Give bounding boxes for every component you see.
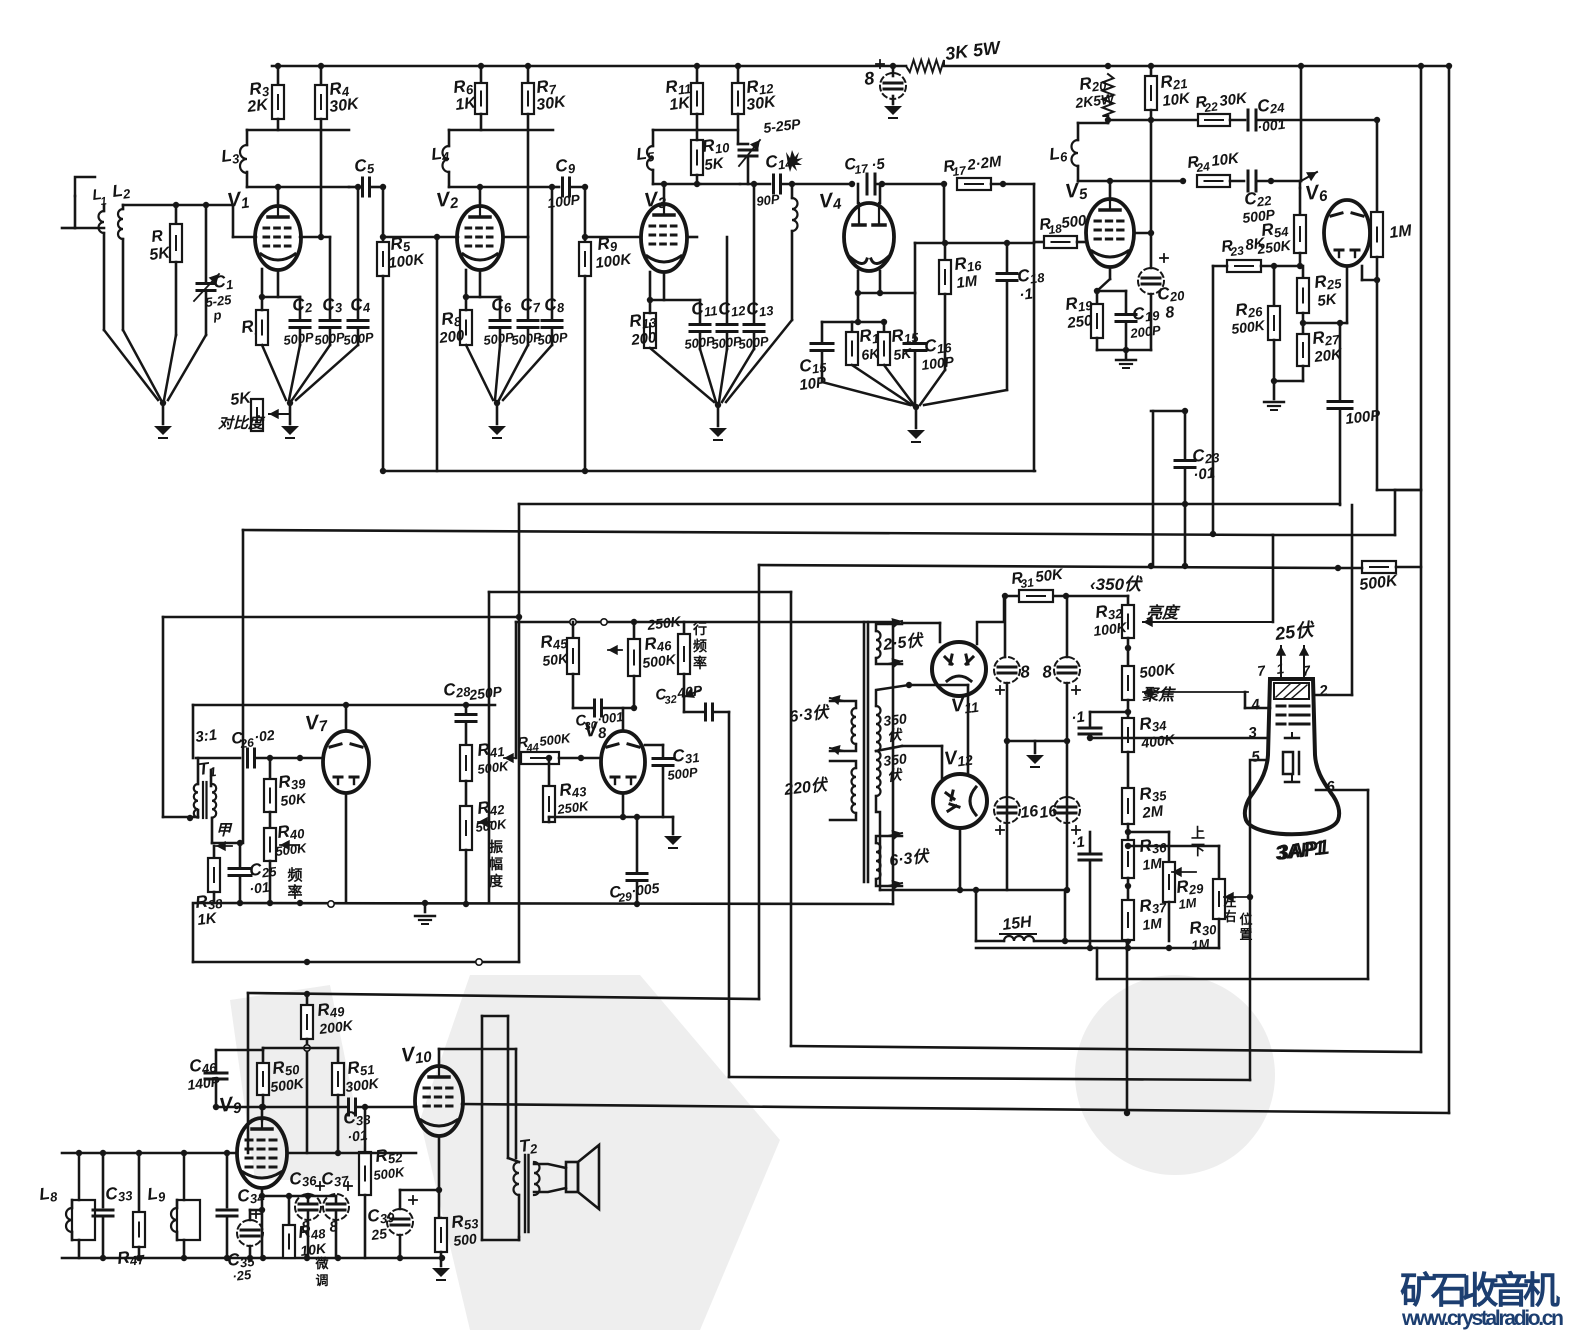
wire V11 leads — [939, 623, 942, 642]
wire V7 cathode drop — [345, 793, 348, 903]
capacitor C11 500P — [699, 300, 702, 322]
svg-text:C6: C6 — [490, 294, 513, 317]
choke 15H — [975, 890, 978, 941]
resistor R14 6K — [851, 322, 854, 332]
capacitor C24 .001 — [1247, 110, 1250, 130]
capacitor C17 .5 — [849, 181, 855, 187]
svg-text:15H: 15H — [1001, 913, 1033, 934]
svg-text:250K: 250K — [556, 798, 591, 817]
capacitor C33 — [102, 1153, 105, 1207]
wire V5 cathode rail — [1097, 349, 1151, 352]
svg-text:C8: C8 — [543, 294, 566, 317]
resistor R46 500K — [633, 622, 636, 639]
svg-text:2·5伏: 2·5伏 — [881, 631, 925, 654]
svg-text:频: 频 — [693, 638, 707, 654]
resistor R53 500 — [435, 1218, 447, 1252]
wire right edge vertical — [1448, 66, 1451, 1113]
winding 220V — [852, 768, 857, 813]
svg-text:90P: 90P — [756, 191, 781, 209]
svg-text:24: 24 — [1195, 159, 1211, 175]
wire V6 plate jog to 500K riser — [1377, 489, 1421, 492]
svg-text:17: 17 — [952, 163, 968, 179]
capacitor C3 500P — [329, 237, 332, 318]
ground (V1 cathode) — [281, 426, 299, 435]
svg-text:4: 4 — [1249, 696, 1261, 714]
svg-text:8: 8 — [1164, 304, 1175, 322]
ground (top filter cap) — [884, 106, 902, 115]
wire top B+ bus — [272, 65, 906, 68]
svg-text:10P: 10P — [798, 374, 828, 394]
svg-text:5: 5 — [1250, 748, 1261, 766]
svg-text:V7: V7 — [304, 710, 329, 737]
ground (bottom rail) — [440, 1258, 443, 1266]
resistor R6 1K — [480, 66, 483, 83]
svg-text:率: 率 — [287, 883, 302, 901]
ground funnel (V1 input) — [104, 330, 158, 400]
spark mark — [786, 150, 803, 172]
wire 350V leads — [876, 685, 909, 706]
ground (R26/R27) — [1273, 381, 1276, 399]
capacitor C8 500P — [551, 187, 554, 318]
wire V2 cathode — [479, 270, 482, 297]
svg-text:频: 频 — [287, 866, 302, 884]
capacitor C26 .02 — [246, 749, 249, 767]
ground (V7 rail) — [424, 903, 427, 912]
ecap C36 8 — [307, 1196, 310, 1203]
svg-text:3K 5W: 3K 5W — [944, 37, 1003, 64]
resistor R12 30K — [737, 66, 740, 83]
svg-text:C3: C3 — [321, 294, 344, 317]
capacitor 100P (V6 cathode) — [1339, 323, 1342, 399]
speaker — [566, 1162, 578, 1192]
resistor R41 500K — [460, 745, 472, 781]
svg-text:50K: 50K — [279, 790, 307, 809]
svg-text:500P: 500P — [483, 329, 515, 348]
svg-text:www.crystalradio.cn: www.crystalradio.cn — [1401, 1307, 1564, 1330]
wire y1077 deflection from C32 — [729, 1077, 1250, 1080]
svg-text:·1: ·1 — [1018, 285, 1033, 303]
svg-text:V2: V2 — [435, 187, 460, 214]
svg-text:500K: 500K — [275, 840, 309, 859]
wire CRT pin2 — [1313, 694, 1352, 697]
wire bus drop to V6 grid — [1298, 63, 1304, 69]
wire PS bottom rails — [976, 947, 1219, 950]
filter cap 8 right — [1066, 596, 1069, 657]
capacitor 8 (top filter, electrolytic) — [890, 63, 896, 69]
wire R31 row y596 — [1004, 595, 1128, 598]
coil L5 tank — [653, 129, 738, 132]
wire V6 cathode to divider — [1346, 266, 1349, 323]
svg-text:1K: 1K — [668, 94, 692, 114]
ground (V8) — [672, 817, 675, 834]
svg-text:250: 250 — [1065, 312, 1094, 332]
capacitor C6 500P — [499, 297, 502, 318]
resistor R8 200 — [465, 270, 468, 297]
wire CRT pin6 — [1316, 789, 1368, 792]
CRT deflection plates — [1285, 737, 1299, 740]
wire riser x1421 — [1420, 66, 1423, 1052]
svg-text:L9: L9 — [146, 1183, 167, 1206]
wire V1 cathode — [277, 270, 280, 297]
svg-text:30K: 30K — [535, 93, 568, 114]
svg-text:500K: 500K — [539, 730, 573, 749]
resistor R20 2K 5W — [1105, 63, 1111, 69]
resistor R42 500K pot — [465, 781, 468, 806]
wire T1 secondary tap — [211, 818, 214, 843]
wire V1 screen row — [300, 236, 330, 239]
svg-text:行: 行 — [692, 621, 707, 637]
CRT gun hatch — [1274, 683, 1309, 699]
wire V10 cathode — [438, 1136, 441, 1218]
ground funnel (V3) — [650, 348, 714, 402]
svg-text:400K: 400K — [1139, 731, 1176, 751]
coil L3 plate tank — [247, 129, 349, 132]
wire V3 cathode — [663, 272, 666, 300]
svg-text:p: p — [212, 307, 223, 323]
svg-text:1M: 1M — [955, 272, 978, 291]
coil L2 — [122, 205, 125, 209]
svg-text:C33: C33 — [104, 1182, 134, 1206]
ground (V2) — [488, 426, 506, 435]
resistor R32 100K pot (brightness) — [1127, 596, 1130, 605]
capacitor C32 40P — [683, 674, 686, 712]
trimmer capacitor C1 5-25p — [205, 205, 208, 281]
svg-text:500P: 500P — [667, 764, 699, 783]
resistor R38 1K — [213, 846, 216, 858]
peaking coil under C14 node — [789, 181, 795, 187]
rectifier tube V12 — [933, 774, 987, 828]
wire CRT pin5 — [1250, 760, 1268, 1080]
svg-text:500K: 500K — [1230, 317, 1266, 337]
resistor R37 1M — [1122, 900, 1134, 940]
ground funnel (V2) — [466, 345, 493, 400]
electrolytic C20 8 — [1150, 233, 1153, 268]
svg-text:500K: 500K — [641, 651, 677, 671]
winding 350V lower — [876, 751, 881, 796]
wire LC y532 — [243, 530, 1273, 535]
svg-text:250P: 250P — [467, 683, 503, 703]
capacitor C12 500P — [726, 237, 729, 322]
wire middle box top y592 — [489, 591, 791, 594]
svg-text:R: R — [150, 228, 164, 246]
svg-text:300K: 300K — [344, 1075, 380, 1095]
svg-text:200P: 200P — [1129, 322, 1162, 341]
resistor R47 — [138, 1153, 141, 1212]
capacitor C5 — [361, 178, 364, 196]
svg-text:50K: 50K — [1034, 566, 1065, 586]
svg-text:5K: 5K — [892, 345, 913, 363]
svg-text:1M: 1M — [1178, 895, 1199, 912]
wire CRT pin4 — [1245, 707, 1270, 710]
filter cap 8 left — [1004, 596, 1007, 657]
svg-text:L3: L3 — [220, 145, 241, 168]
wire V2 plate row to C9 — [553, 186, 559, 189]
wire rail y993 — [248, 993, 759, 999]
wire V9 bottom connections — [261, 1188, 264, 1258]
resistor R34 400K — [1122, 718, 1134, 752]
wire PS mid rail y741 — [1007, 740, 1067, 743]
svg-text:V12: V12 — [943, 746, 974, 771]
wire T1 primary bottom — [187, 815, 193, 821]
svg-text:R16: R16 — [953, 252, 983, 276]
capacitor C19 200P — [1125, 291, 1128, 312]
svg-text:44: 44 — [525, 742, 540, 756]
wire V5 cathode — [1109, 267, 1112, 279]
ground (PS mid) — [1034, 741, 1037, 753]
svg-text:L2: L2 — [111, 180, 132, 203]
svg-text:500K: 500K — [477, 758, 511, 777]
resistor R10 5K (inside tank) — [691, 140, 703, 175]
transformer T3 core — [863, 622, 866, 882]
svg-text:甲: 甲 — [216, 822, 233, 839]
resistor R15 5K — [883, 322, 886, 332]
svg-text:1K: 1K — [196, 910, 218, 929]
svg-text:C18: C18 — [1016, 264, 1046, 288]
svg-text:上: 上 — [1191, 825, 1205, 841]
svg-text:8: 8 — [1019, 662, 1031, 682]
resistor R1 — [261, 269, 264, 297]
wire V5 grid node — [1134, 232, 1151, 235]
resistor R3 2K — [277, 66, 280, 85]
wire V7 plate rail y705 — [193, 704, 495, 707]
capacitor C18 .1 — [1006, 243, 1009, 272]
capacitor C34 — [217, 1209, 237, 1212]
resistor R52 500K — [359, 1152, 371, 1195]
resistor R48 10K — [262, 1195, 336, 1198]
resistor R22 30K — [1198, 114, 1230, 126]
wire V4 cathode rows — [857, 271, 860, 322]
CRT 3AP1 body — [1245, 679, 1339, 834]
svg-text:C7: C7 — [519, 294, 542, 317]
wire screen feed row y120 — [1107, 116, 1110, 123]
svg-text:10K: 10K — [1210, 150, 1241, 170]
svg-text:调: 调 — [315, 1273, 328, 1288]
svg-text:500: 500 — [452, 1230, 477, 1249]
svg-text:微: 微 — [314, 1256, 329, 1271]
svg-text:对比度: 对比度 — [218, 414, 266, 432]
svg-text:5K: 5K — [1316, 291, 1338, 310]
wire V7 grid row y758 — [196, 757, 240, 760]
svg-text:22: 22 — [1203, 99, 1219, 115]
filter cap 16 left — [994, 797, 1020, 823]
wire V1 grid row — [75, 227, 104, 230]
svg-text:矿石收音机: 矿石收音机 — [1400, 1270, 1560, 1311]
wire V12 leads — [941, 746, 944, 778]
svg-text:17: 17 — [854, 161, 870, 177]
svg-text:10K: 10K — [1161, 90, 1192, 110]
wire V9 grid row — [62, 1152, 237, 1155]
capacitor C22 500P — [1247, 171, 1250, 191]
svg-text:R25: R25 — [1313, 270, 1343, 294]
resistor R5 100K — [382, 187, 385, 242]
svg-text:220伏: 220伏 — [782, 776, 830, 799]
wire V2 grid — [383, 236, 458, 239]
wire x791 drop — [790, 592, 793, 1046]
svg-text:5-25P: 5-25P — [762, 115, 802, 136]
capacitor C23 .01 — [1151, 410, 1185, 413]
svg-text:伏: 伏 — [886, 766, 904, 784]
svg-text:C4: C4 — [349, 294, 372, 317]
resistor R30 1M pot — [1218, 846, 1221, 879]
resistor 500K (to CRT) — [1362, 561, 1396, 573]
capacitor C4 500P — [357, 187, 360, 318]
wire LA y471 — [383, 470, 1035, 473]
wire V9 output row — [287, 1152, 416, 1155]
coil L6 tank — [1078, 122, 1108, 125]
resistor 1M (V6 plate) — [1376, 120, 1379, 212]
wire V2 screen row — [503, 236, 528, 239]
wire R50/R51 top row — [263, 1047, 338, 1050]
capacitor C46 140P — [215, 1050, 218, 1073]
capacitor C29 .005 — [636, 817, 639, 871]
svg-text:100K: 100K — [594, 251, 633, 272]
svg-text:2K: 2K — [245, 96, 270, 116]
resistor R19 250 — [1096, 291, 1099, 304]
capacitor C38 .01 — [347, 1099, 350, 1115]
wire V5 plate row — [1107, 178, 1113, 184]
svg-text:1M: 1M — [1141, 855, 1163, 873]
wire R17 to R18 node — [1033, 184, 1036, 471]
svg-text:6·3伏: 6·3伏 — [888, 847, 931, 870]
svg-text:·25: ·25 — [232, 1267, 253, 1284]
coil L4 tank — [449, 129, 553, 132]
resistor R43 250K — [548, 758, 551, 786]
ground (V3) — [709, 428, 727, 437]
winding 350V upper — [876, 706, 881, 751]
svg-text:500K: 500K — [475, 816, 509, 835]
svg-text:1M: 1M — [1388, 222, 1413, 242]
svg-text:V9: V9 — [218, 1092, 243, 1119]
svg-text:26: 26 — [239, 735, 255, 751]
svg-text:500K: 500K — [1358, 572, 1399, 594]
capacitor C13 500P — [753, 184, 756, 322]
svg-text:下: 下 — [1191, 842, 1205, 858]
capacitor C9 100P — [561, 178, 564, 196]
svg-text:率: 率 — [693, 655, 707, 671]
svg-text:8: 8 — [1041, 662, 1053, 682]
svg-text:100K: 100K — [387, 251, 426, 272]
CRT grid dashes — [1277, 705, 1285, 708]
svg-text:亮度: 亮度 — [1146, 604, 1181, 622]
svg-text:·5: ·5 — [870, 155, 886, 174]
wire V5 rail drop x1153 — [1152, 411, 1155, 566]
svg-text:聚焦: 聚焦 — [1141, 686, 1176, 704]
svg-text:1: 1 — [100, 195, 108, 208]
svg-text:·005: ·005 — [630, 880, 660, 899]
svg-text:C39: C39 — [366, 1204, 396, 1228]
svg-text:·02: ·02 — [253, 727, 275, 745]
svg-text:·1: ·1 — [1070, 708, 1085, 726]
svg-text:500K: 500K — [1138, 661, 1177, 682]
svg-text:幅: 幅 — [489, 856, 503, 872]
wire V8 box right side — [892, 622, 895, 904]
svg-text:L8: L8 — [38, 1183, 59, 1206]
svg-text:5K: 5K — [229, 389, 253, 409]
wire rail y962 — [193, 961, 519, 964]
svg-text:右: 右 — [1222, 909, 1236, 924]
svg-text:500: 500 — [1060, 212, 1088, 232]
wire CRT pin3 — [1090, 737, 1268, 740]
svg-text:5K: 5K — [148, 244, 172, 264]
wire V10 plate to T2 — [439, 1048, 516, 1051]
wire LD left y617 — [163, 616, 519, 619]
ecap C35 — [237, 1220, 263, 1246]
svg-text:1K: 1K — [454, 94, 478, 114]
faint site watermark blob right — [1075, 975, 1275, 1175]
svg-text:R10: R10 — [701, 134, 731, 158]
svg-text:R35: R35 — [1138, 782, 1168, 806]
resistor R 5K (input) — [175, 205, 178, 224]
svg-text:500K: 500K — [373, 1164, 407, 1183]
svg-text:2: 2 — [1317, 682, 1329, 700]
resistor R9 100K — [584, 187, 587, 242]
svg-text:250K: 250K — [645, 613, 682, 633]
wire T2 feed — [482, 1015, 508, 1018]
wire bottom rail y1258 — [62, 1257, 442, 1260]
svg-text:‹350伏: ‹350伏 — [1090, 575, 1143, 594]
wire R45/R46 top row y622 — [516, 621, 893, 624]
resistor R26 500K — [1273, 266, 1276, 306]
resistor R4 30K — [320, 66, 323, 85]
filter cap 16 right — [1054, 797, 1080, 823]
svg-text:5K: 5K — [703, 155, 725, 174]
svg-text:31: 31 — [1020, 575, 1035, 591]
wire V8 cathode rail — [622, 793, 625, 817]
antenna input hook — [75, 177, 95, 196]
svg-text:1M: 1M — [1141, 915, 1163, 933]
svg-text:C28: C28 — [442, 678, 472, 702]
svg-text:7: 7 — [1256, 662, 1267, 679]
trimmer capacitor 5-25P — [737, 114, 740, 144]
svg-text:3AP1: 3AP1 — [1274, 837, 1326, 865]
svg-text:6·3伏: 6·3伏 — [788, 703, 831, 726]
capacitor C7 500P — [527, 237, 530, 318]
resistor R51 300K — [332, 1063, 344, 1095]
svg-text:C13: C13 — [745, 297, 775, 321]
resistor R54 250K pot — [1299, 188, 1302, 215]
ground funnel (V1 cathode) — [262, 345, 286, 400]
svg-text:30K: 30K — [745, 93, 778, 114]
svg-text:伏: 伏 — [886, 726, 904, 744]
wire V2 grid return — [436, 237, 439, 471]
svg-text:L6: L6 — [1048, 143, 1069, 166]
svg-text:·01: ·01 — [248, 879, 270, 897]
winding 2.5V — [876, 631, 881, 658]
svg-text:8: 8 — [863, 68, 875, 89]
faint site watermark blob left — [420, 975, 780, 1330]
resistor R29 1M pot — [1168, 832, 1171, 862]
svg-text:C20: C20 — [1156, 282, 1186, 306]
svg-text:200: 200 — [437, 327, 466, 347]
wire V7 bottom rail y903 — [193, 903, 893, 904]
svg-text:C9: C9 — [554, 155, 577, 178]
svg-text:16: 16 — [1038, 803, 1058, 822]
wire V10 output long line y1104 — [462, 1104, 1449, 1113]
svg-text:16: 16 — [1019, 803, 1039, 822]
capacitor .1 upper — [1089, 712, 1092, 728]
svg-text:V10: V10 — [400, 1041, 433, 1069]
svg-text:C5: C5 — [353, 155, 376, 178]
resistor R27 20K — [1302, 323, 1305, 334]
resistor R49 200K — [306, 994, 309, 1005]
wire y1046 from V8-box to right riser — [791, 1046, 1421, 1052]
wire V1 plate row to C5 — [349, 186, 359, 189]
resistor R39 50K — [269, 758, 272, 779]
capacitor C31 500P — [645, 744, 663, 747]
svg-text:左: 左 — [1223, 894, 1236, 909]
grid arrow to V6 — [1301, 172, 1317, 181]
svg-text:振: 振 — [489, 839, 503, 855]
